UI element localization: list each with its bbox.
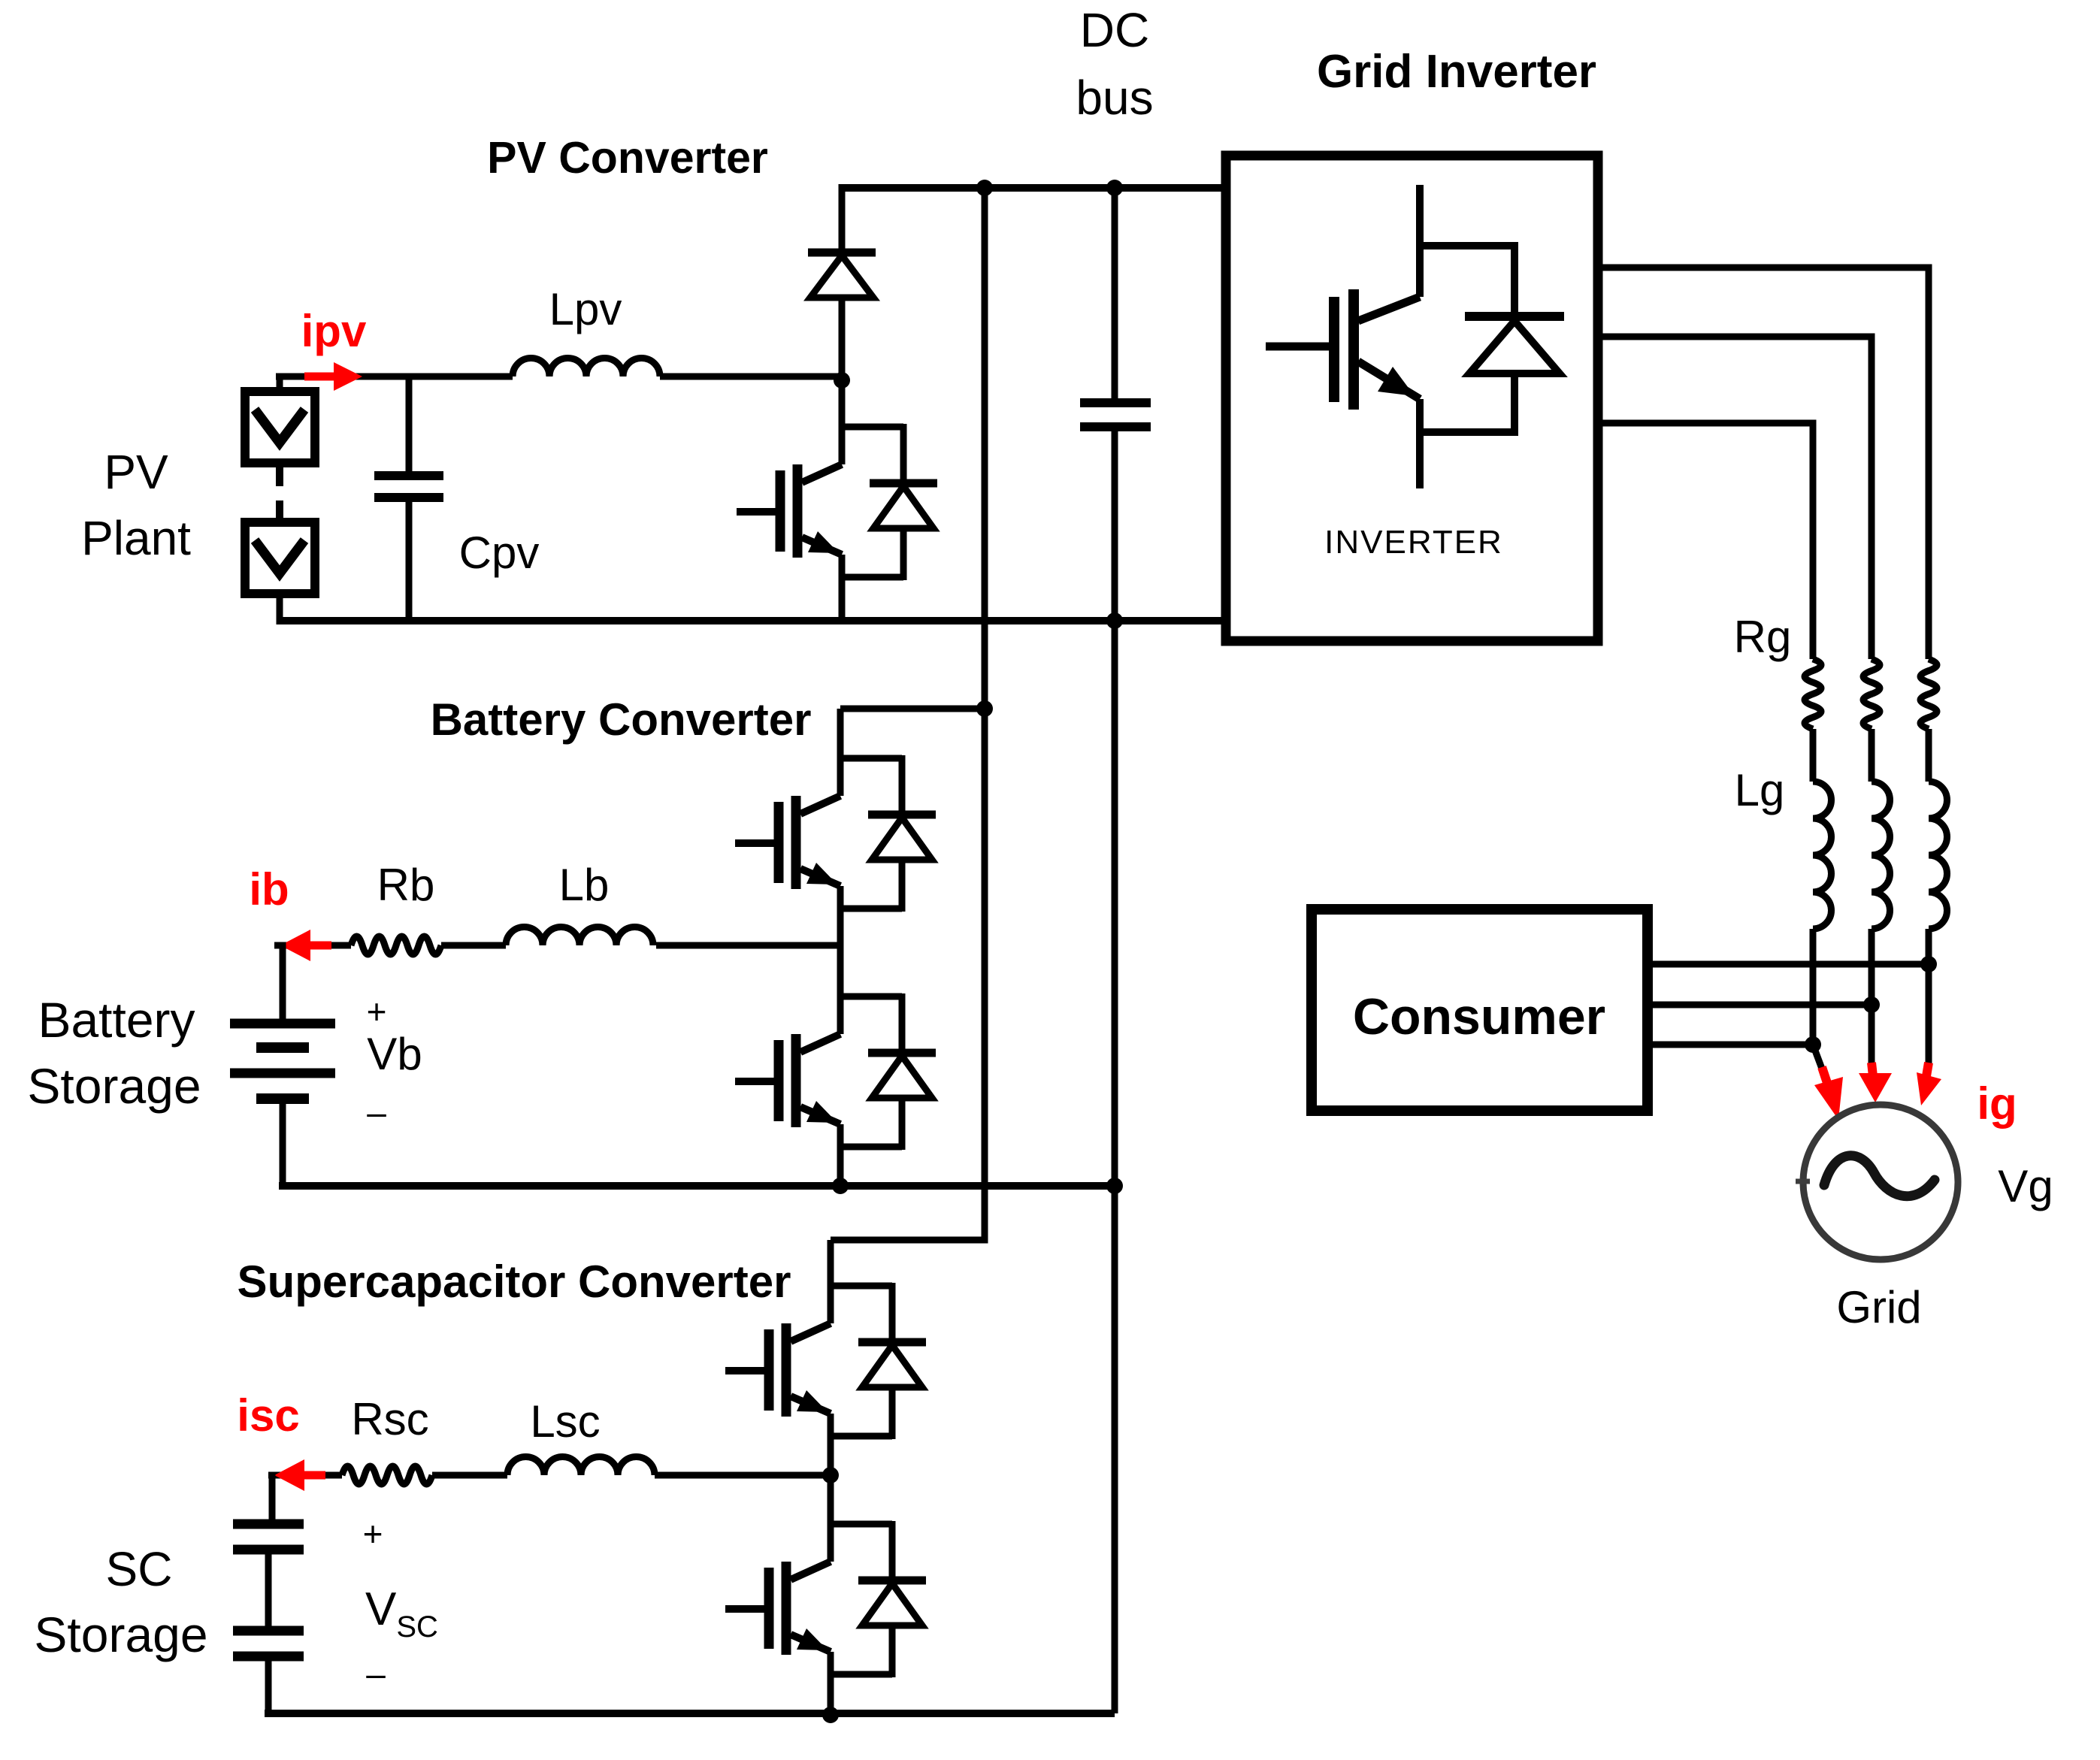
wire: phase C drop to grid	[1813, 1045, 1822, 1069]
svg-text:Lg: Lg	[1735, 765, 1785, 815]
transistor Qpv emitter diagonal	[802, 537, 842, 555]
label: DC bus (line2)	[1076, 71, 1153, 125]
diode Qb1 antiparallel (cathode bar)	[868, 811, 936, 819]
wire: Qb2 leg lower segment	[837, 1124, 844, 1186]
PV module 1 chevron	[255, 410, 304, 443]
wire: Qsc2 leg lower segment	[828, 1652, 834, 1713]
wire: phase A Rg to Lg	[1926, 729, 1932, 782]
svg-text:+: +	[363, 1514, 383, 1553]
label: Rb	[377, 860, 435, 910]
PV module 1 (box)	[245, 392, 315, 463]
label: Cpv	[459, 528, 540, 578]
transistor Qb2 emitter diagonal	[800, 1107, 840, 1124]
wire: Qpv diode bottom jog	[842, 574, 903, 581]
node: phase B consumer tap	[1863, 996, 1880, 1013]
battery Vb (plate3 long)	[230, 1069, 335, 1078]
diode Qpv antiparallel (anode lead)	[900, 528, 907, 580]
diode Qb1 antiparallel (anode lead)	[899, 860, 906, 912]
resistor Rg phase A	[1920, 659, 1937, 729]
svg-text:Rsc: Rsc	[351, 1394, 428, 1444]
svg-text:PV Converter: PV Converter	[487, 133, 768, 183]
PV module 2 (box)	[245, 522, 315, 594]
diode Qsc2 antiparallel (anode lead)	[889, 1625, 896, 1677]
svg-text:Plant: Plant	[81, 511, 191, 565]
transistor Qb2 gate bar	[774, 1040, 784, 1121]
diode Qsc2 antiparallel (cathode lead)	[889, 1521, 896, 1580]
block: consumer box	[1312, 909, 1648, 1111]
transistor Qpv gate bar	[776, 470, 785, 552]
svg-text:–: –	[366, 1654, 386, 1693]
svg-text:Lpv: Lpv	[549, 284, 622, 334]
svg-text:Consumer: Consumer	[1353, 988, 1605, 1045]
label: Vg	[1998, 1161, 2053, 1211]
wire: consumer feeder B	[1648, 1002, 1872, 1009]
diode Qsc1 antiparallel (cathode lead)	[889, 1283, 896, 1342]
label: battery plus	[367, 992, 387, 1031]
svg-text:+: +	[367, 992, 387, 1031]
wire: Qb2 diode top jog	[840, 993, 902, 1000]
node: battery stub / bus A junction	[976, 700, 993, 717]
transistor Qinv gate lead	[1266, 343, 1329, 351]
wire: bus B vertical (DC-) bottom	[1112, 1186, 1118, 1713]
wire: Qb2 diode bottom jog	[840, 1144, 902, 1151]
transistor Qb1 collector diagonal	[800, 796, 840, 814]
label: Lg	[1735, 765, 1785, 815]
resistor Rsc	[342, 1466, 432, 1484]
diode Qb2 antiparallel (cathode lead)	[899, 993, 906, 1053]
inductor Lg phase B	[1872, 782, 1890, 929]
label: SC minus	[366, 1654, 386, 1693]
wire: consumer feeder A	[1648, 961, 1929, 968]
wire: Qinv diode top jog	[1420, 242, 1514, 249]
wire: PV positive wire to Lpv	[276, 373, 513, 380]
source Vg grid (circle)	[1803, 1105, 1958, 1260]
node: phase A consumer tap	[1920, 956, 1937, 972]
svg-text:Cpv: Cpv	[459, 528, 540, 578]
label: SC Storage (line2)	[34, 1607, 207, 1662]
svg-text:Supercapacitor Converter: Supercapacitor Converter	[238, 1256, 791, 1307]
capacitor SC2 (plate1)	[233, 1626, 304, 1636]
transistor Qpv emitter arrowhead	[808, 531, 839, 553]
wire: Qsc1 diode top jog	[831, 1283, 892, 1290]
label: ib (red)	[249, 864, 289, 915]
arrow: ig phase B (red)	[1859, 1063, 1892, 1102]
transistor Qb1 emitter diagonal	[800, 869, 840, 886]
capacitor SC1 (plate1)	[233, 1520, 304, 1529]
diode Dinv (cathode lead)	[1511, 242, 1518, 316]
wire: Qsc2 diode bottom jog	[831, 1671, 892, 1678]
resistor Rb	[351, 936, 441, 954]
svg-text:Battery: Battery	[38, 992, 195, 1048]
transistor Qb1 gate lead	[735, 839, 774, 847]
wire: Qsc2 diode top jog	[831, 1521, 892, 1528]
svg-text:SC: SC	[106, 1542, 173, 1596]
wire: bus B vertical (DC-) mid	[1112, 621, 1118, 1186]
transistor Qsc1 collector diagonal	[791, 1323, 831, 1341]
wire: consumer feeder C	[1648, 1042, 1813, 1048]
wire: battery wire left segment	[274, 942, 351, 949]
wire: battery negative lead	[280, 1099, 286, 1186]
PV module 2 chevron	[255, 540, 304, 573]
node: top rail / bus A junction	[976, 180, 993, 196]
svg-text:Rb: Rb	[377, 860, 435, 910]
node: battery leg / rail junction	[832, 1178, 849, 1194]
label: SC (line1)	[106, 1542, 173, 1596]
diode Qb1 antiparallel (triangle)	[872, 818, 932, 860]
inductor Lg phase A	[1929, 782, 1947, 929]
wire: supercap negative lead	[265, 1656, 272, 1713]
wire: Qsc1 leg lower segment	[828, 1414, 834, 1475]
transistor Qinv emitter arrowhead	[1378, 367, 1415, 396]
wire: SC interlink	[265, 1550, 272, 1626]
label: Lpv	[549, 284, 622, 334]
wire: phase A from inverter	[1598, 268, 1929, 659]
arrow: ig phase C (red)	[1814, 1067, 1843, 1120]
transistor Qinv emitter diagonal	[1358, 361, 1420, 399]
label: Battery Converter title	[431, 694, 812, 745]
label: INVERTER	[1324, 524, 1503, 561]
node: phase C consumer tap	[1805, 1036, 1821, 1053]
wire: supercap wire left segment	[268, 1472, 342, 1479]
arrow: ig phase A (red)	[1917, 1063, 1941, 1105]
transistor Qb2 gate lead	[735, 1078, 774, 1085]
wire: battery negative rail	[279, 1182, 1115, 1190]
capacitor Cpv upper lead	[406, 376, 413, 472]
transistor Qsc1 emitter arrowhead	[797, 1390, 828, 1412]
wire: Qpv leg upper segment	[839, 380, 846, 464]
transistor Qinv collector diagonal	[1358, 297, 1420, 321]
wire: bus A vertical (DC+)	[831, 188, 985, 1240]
wire: supercap negative rail	[265, 1710, 1115, 1717]
diode Qb2 antiparallel (anode lead)	[899, 1098, 906, 1150]
label: PV (plant line1)	[104, 445, 168, 499]
capacitor SC1 (plate2)	[233, 1545, 304, 1555]
diode Dpv boost (cathode bar)	[808, 249, 876, 257]
wire: Qb1 diode bottom jog	[840, 906, 902, 912]
svg-text:DC: DC	[1080, 3, 1149, 57]
wire: dashed link between PV modules	[276, 467, 283, 519]
diode Qsc2 antiparallel (triangle)	[862, 1583, 922, 1625]
inductor Lb	[506, 927, 653, 946]
capacitor SC2 (plate2)	[233, 1652, 304, 1662]
wire: phase A Lg to PCC	[1926, 929, 1932, 964]
wire: Lpv to PV leg	[660, 373, 842, 380]
svg-text:Lsc: Lsc	[530, 1396, 600, 1447]
label: PV Converter title	[487, 133, 768, 183]
diode Qb1 antiparallel (cathode lead)	[899, 755, 906, 815]
capacitor Cpv	[374, 476, 443, 497]
wire: DC+ top rail	[839, 184, 1226, 192]
label: Rg	[1734, 612, 1792, 662]
label: Vb	[367, 1029, 422, 1079]
diode Qsc2 antiparallel (cathode bar)	[858, 1577, 926, 1585]
transistor Qsc2 body bar	[782, 1562, 791, 1655]
battery Vb (plate4 short)	[256, 1093, 309, 1104]
wire: Qb2 leg upper segment	[837, 945, 844, 1034]
svg-text:Lb: Lb	[559, 860, 610, 910]
svg-text:Grid Inverter: Grid Inverter	[1317, 46, 1596, 98]
inductor Lg phase C	[1813, 782, 1832, 929]
node: PV rail / bus B junction	[1106, 612, 1123, 629]
transistor Qinv collector lead	[1416, 185, 1424, 297]
node: battery rail / bus B junction	[1106, 1178, 1123, 1194]
wire: phase B drop to grid	[1869, 1005, 1875, 1067]
battery Vb (plate1 long +)	[230, 1019, 335, 1029]
transistor Qb2 body bar	[791, 1034, 801, 1127]
wire: phase C from inverter	[1598, 423, 1813, 659]
wire: Qsc2 leg upper segment	[828, 1475, 834, 1562]
svg-text:INVERTER: INVERTER	[1324, 524, 1503, 561]
label: DC bus (line1)	[1080, 3, 1149, 57]
wire: battery positive lead	[274, 945, 283, 1024]
transistor Qb1 emitter arrowhead	[806, 863, 837, 885]
wire: Qb1 diode top jog	[840, 755, 902, 762]
wire: Rb to Lb	[441, 942, 506, 949]
label: Battery (line1)	[38, 992, 195, 1048]
inductor Lsc	[507, 1456, 655, 1475]
label: SC plus	[363, 1514, 383, 1553]
diode Dinv (triangle)	[1469, 321, 1560, 373]
label: Vsc	[365, 1583, 438, 1644]
label: Plant (plant line2)	[81, 511, 191, 565]
wire: Qpv diode top jog	[842, 424, 903, 431]
wire: phase B from inverter	[1598, 337, 1872, 659]
wire: PV plant positive lead	[276, 376, 280, 392]
wire: Qpv leg lower segment	[839, 555, 846, 621]
transistor Qsc2 emitter arrowhead	[797, 1628, 828, 1650]
svg-text:Storage: Storage	[27, 1058, 201, 1114]
transistor Qsc2 gate lead	[725, 1605, 764, 1613]
label: ig (red)	[1977, 1078, 2017, 1129]
svg-text:Storage: Storage	[34, 1607, 207, 1662]
wire: battery leg top stub	[840, 706, 985, 712]
wire: phase B Rg to Lg	[1869, 729, 1875, 782]
node: top rail / bus B junction	[1106, 180, 1123, 196]
transistor Qsc1 gate lead	[725, 1367, 764, 1374]
label: Consumer	[1353, 988, 1605, 1045]
label: Supercapacitor Converter title	[238, 1256, 791, 1307]
arrow: isc current direction (red)	[274, 1459, 325, 1491]
diode Dpv boost (anode lead)	[839, 298, 846, 380]
wire: Qinv diode bottom jog	[1420, 428, 1514, 436]
svg-text:Vb: Vb	[367, 1029, 422, 1079]
transistor Qb1 gate bar	[774, 802, 784, 883]
diode Dpv boost (cathode lead)	[839, 184, 846, 253]
svg-text:Vg: Vg	[1998, 1161, 2053, 1211]
wire: phase C Lg to PCC	[1810, 929, 1817, 1045]
node: supercap leg midpoint	[822, 1467, 839, 1483]
transistor Qb2 collector diagonal	[800, 1034, 840, 1052]
wire: Rsc to Lsc	[432, 1472, 507, 1479]
transistor Qpv collector diagonal	[802, 464, 842, 482]
arrow: ib current direction (red)	[280, 930, 331, 961]
label: Grid Inverter title	[1317, 46, 1596, 98]
transistor Qsc2 emitter diagonal	[791, 1635, 831, 1652]
label: Grid	[1836, 1282, 1921, 1332]
resistor Rg phase B	[1863, 659, 1880, 729]
transistor Qinv body bar	[1348, 289, 1359, 410]
svg-text:bus: bus	[1076, 71, 1153, 125]
diode Qsc1 antiparallel (triangle)	[862, 1345, 922, 1387]
capacitor Cpv lower lead	[406, 497, 413, 621]
diode Qsc1 antiparallel (cathode bar)	[858, 1338, 926, 1347]
wire: PV negative rail (DC-)	[277, 617, 1226, 624]
diode Dpv boost (triangle)	[810, 256, 873, 298]
transistor Qinv emitter lead	[1416, 399, 1424, 488]
transistor Qsc1 body bar	[782, 1323, 791, 1417]
label: battery minus	[367, 1093, 386, 1132]
transistor Qsc2 gate bar	[764, 1568, 774, 1649]
wire: phase A drop to grid	[1926, 964, 1932, 1067]
transistor Qsc1 gate bar	[764, 1329, 774, 1411]
label: Storage (line2)	[27, 1058, 201, 1114]
wire: Lsc to supercap leg	[655, 1472, 831, 1479]
transistor Qpv gate lead	[737, 508, 776, 516]
source Vg grid (sine wave)	[1824, 1156, 1935, 1196]
inductor Lpv	[513, 358, 660, 376]
transistor Qb1 body bar	[791, 796, 801, 889]
transistor Qsc2 collector diagonal	[791, 1562, 831, 1580]
svg-text:Rg: Rg	[1734, 612, 1792, 662]
wire: Qsc1 leg upper segment	[828, 1240, 834, 1323]
diode Qpv antiparallel (triangle)	[873, 486, 934, 528]
wire: bus B vertical upper (to DC-link cap)	[1112, 188, 1118, 402]
diode Qb2 antiparallel (triangle)	[872, 1056, 932, 1098]
diode Qb2 antiparallel (cathode bar)	[868, 1049, 936, 1057]
label: ipv (red)	[301, 306, 367, 356]
node: PV leg junction	[834, 372, 850, 389]
arrow: ipv current direction (red)	[304, 362, 362, 391]
svg-text:Grid: Grid	[1836, 1282, 1921, 1332]
node: supercap leg / rail junction	[822, 1707, 839, 1723]
wire: phase C Rg to Lg	[1810, 729, 1817, 782]
wire: supercap positive lead	[268, 1475, 272, 1520]
svg-text:–: –	[367, 1093, 386, 1132]
diode Qpv antiparallel (cathode lead)	[900, 424, 907, 483]
svg-text:Battery Converter: Battery Converter	[431, 694, 812, 745]
svg-text:ib: ib	[249, 864, 289, 915]
label: isc (red)	[237, 1390, 299, 1441]
label: Rsc	[351, 1394, 428, 1444]
wire: bus B vertical lower (DC-)	[1112, 427, 1118, 621]
diode Dinv (anode lead)	[1511, 373, 1518, 436]
wire: Qb1 leg lower segment	[837, 886, 844, 945]
wire: PV plant negative lead	[277, 594, 283, 624]
diode Qpv antiparallel (cathode bar)	[870, 479, 937, 488]
svg-text:PV: PV	[104, 445, 168, 499]
transistor Qsc1 emitter diagonal	[791, 1396, 831, 1414]
wire: Qb1 leg upper segment	[837, 709, 844, 796]
wire: phase B Lg to PCC	[1869, 929, 1875, 1005]
transistor Qpv body bar	[793, 464, 803, 558]
wire: Qsc1 diode bottom jog	[831, 1433, 892, 1440]
label: Lsc	[530, 1396, 600, 1447]
transistor Qinv gate bar	[1329, 297, 1339, 402]
transistor Qb2 emitter arrowhead	[806, 1101, 837, 1123]
diode Qsc1 antiparallel (anode lead)	[889, 1387, 896, 1439]
resistor Rg phase C	[1805, 659, 1821, 729]
source Vg grid (left terminal tick)	[1796, 1179, 1810, 1184]
diode Dinv (cathode bar)	[1465, 312, 1564, 321]
label: Lb	[559, 860, 610, 910]
wire: Lb to battery leg	[656, 942, 840, 949]
battery Vb (plate2 short)	[256, 1042, 309, 1053]
svg-text:ipv: ipv	[301, 306, 367, 356]
block: grid inverter box	[1226, 156, 1598, 641]
capacitor Cdc (DC bus)	[1080, 403, 1151, 427]
svg-text:isc: isc	[237, 1390, 299, 1441]
svg-text:ig: ig	[1977, 1078, 2017, 1129]
